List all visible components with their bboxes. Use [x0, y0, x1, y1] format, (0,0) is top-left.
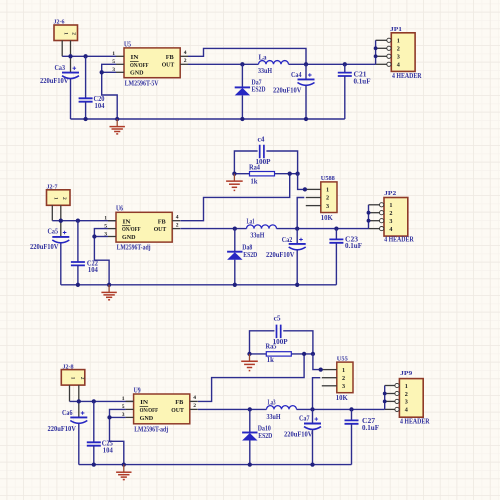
wire J2-7 pin1: [51, 205, 53, 220]
junction: [76, 283, 80, 287]
pin 2: [376, 47, 387, 49]
junction: [295, 172, 299, 176]
regulator IC U6: [116, 212, 172, 242]
svg-text:ON/OFF: ON/OFF: [122, 226, 141, 233]
capacitor C23: [329, 229, 343, 285]
pin 4 (FB): [190, 400, 198, 402]
junction: [77, 399, 81, 403]
wire ON/OFF to GND net: [94, 229, 109, 285]
header JP9: [399, 379, 423, 418]
wire ON/OFF to GND net: [102, 64, 118, 119]
svg-text:33uH: 33uH: [250, 233, 265, 240]
capacitor Ca7: [304, 409, 321, 464]
diode Da10: [242, 409, 257, 464]
ground: [226, 174, 243, 191]
svg-text:220uF10V: 220uF10V: [273, 88, 302, 95]
svg-text:ES2D: ES2D: [243, 252, 257, 259]
junction: [304, 117, 308, 121]
junction: [248, 407, 252, 411]
wire header bus: [368, 205, 370, 229]
regulator IC U5: [124, 48, 180, 78]
svg-text:4 HEADER: 4 HEADER: [384, 237, 414, 244]
svg-text:1k: 1k: [267, 357, 274, 364]
capacitor c4 (100P): [234, 145, 297, 174]
svg-text:220uF10V: 220uF10V: [30, 244, 59, 251]
capacitor Ca6: [70, 411, 87, 464]
pin 1: [376, 39, 387, 41]
wire J2-6 pin2: [70, 41, 72, 73]
pin 2 (OUT): [172, 228, 180, 230]
svg-text:220uF10V: 220uF10V: [284, 431, 313, 438]
svg-text:4: 4: [184, 50, 187, 56]
svg-text:2: 2: [342, 375, 345, 382]
junction: [232, 172, 236, 176]
pin 3: [369, 220, 380, 222]
junction: [367, 211, 371, 215]
svg-text:1: 1: [342, 367, 345, 374]
junction: [233, 226, 237, 230]
capacitor C21: [338, 64, 352, 119]
header JP1: [391, 33, 415, 72]
svg-text:1: 1: [62, 32, 68, 35]
capacitor C22: [71, 221, 85, 285]
wire pot pin1 from RC node: [313, 354, 322, 370]
ground: [110, 119, 125, 134]
connector J2-8: [61, 370, 85, 386]
capacitor C20: [79, 56, 93, 119]
svg-text:LM2596T-adj: LM2596T-adj: [134, 426, 168, 433]
wire pot pin2 from OUT node: [313, 378, 321, 410]
resistor Ra5: [266, 352, 291, 356]
svg-text:FB: FB: [166, 54, 175, 61]
svg-text:OUT: OUT: [162, 62, 175, 69]
svg-text:JP2: JP2: [384, 190, 397, 197]
junction: [343, 62, 347, 66]
wire IN net: [62, 55, 116, 57]
svg-text:1: 1: [112, 51, 115, 57]
pin 4 (FB): [172, 220, 180, 222]
wire OUT net: [180, 228, 246, 230]
svg-text:OUT: OUT: [171, 407, 184, 414]
svg-text:GND: GND: [140, 415, 154, 422]
svg-text:GND: GND: [130, 70, 144, 77]
pin 3 (GND): [126, 416, 134, 418]
pin 5 (ON/OFF): [108, 228, 116, 230]
resistor Ra4: [250, 172, 275, 176]
pin 3: [376, 55, 387, 57]
capacitor Ca4: [298, 64, 315, 119]
svg-text:1k: 1k: [251, 178, 258, 185]
svg-text:1: 1: [53, 197, 59, 200]
wire J2-7 pin2: [60, 205, 62, 237]
svg-text:2: 2: [184, 58, 187, 64]
svg-text:4 HEADER: 4 HEADER: [392, 73, 422, 80]
svg-text:1: 1: [326, 187, 329, 194]
junction: [68, 54, 72, 58]
svg-text:La1: La1: [247, 218, 255, 225]
svg-text:220uF10V: 220uF10V: [40, 78, 69, 85]
svg-text:La: La: [259, 54, 268, 61]
svg-text:Da7: Da7: [252, 79, 263, 86]
pin 4: [376, 63, 387, 65]
svg-text:FB: FB: [158, 218, 167, 225]
pin 1 (IN): [108, 220, 116, 222]
junction: [247, 352, 251, 356]
svg-text:220uF10V: 220uF10V: [266, 252, 295, 259]
regulator IC U9: [134, 394, 190, 424]
junction: [310, 407, 314, 411]
wire pot pin2 from OUT node: [297, 198, 304, 229]
wire FB net: [188, 48, 306, 64]
wire ground rail: [79, 464, 352, 466]
ground: [101, 285, 116, 300]
svg-text:2: 2: [61, 197, 67, 200]
junction: [240, 62, 244, 66]
wire OUT net after inductor: [289, 63, 376, 65]
potentiometer U588: [321, 182, 337, 213]
junction: [240, 117, 244, 121]
svg-text:104: 104: [103, 447, 114, 454]
svg-text:0.1uF: 0.1uF: [362, 425, 379, 432]
wire J2-8 pin2: [78, 385, 80, 417]
inductor La3: [267, 406, 297, 410]
svg-text:1: 1: [104, 216, 107, 222]
svg-text:U55: U55: [337, 355, 349, 362]
svg-text:33uH: 33uH: [267, 414, 282, 421]
junction: [233, 283, 237, 287]
svg-text:2: 2: [326, 195, 329, 202]
diode Da8: [227, 229, 242, 285]
svg-text:Ca2: Ca2: [282, 237, 293, 244]
junction: [248, 462, 252, 466]
svg-text:FB: FB: [175, 399, 184, 406]
wire OUT net: [198, 408, 267, 410]
svg-text:2: 2: [176, 222, 179, 228]
svg-text:Ca4: Ca4: [291, 72, 302, 79]
svg-text:4: 4: [389, 226, 392, 233]
svg-text:c4: c4: [258, 136, 266, 143]
junction: [310, 462, 314, 466]
junction: [59, 219, 63, 223]
potentiometer U55: [337, 362, 353, 393]
pin 4: [369, 228, 380, 230]
svg-text:Da10: Da10: [258, 425, 272, 432]
svg-text:JP1: JP1: [390, 26, 402, 33]
svg-text:Ca6: Ca6: [62, 410, 73, 417]
svg-text:2: 2: [397, 46, 400, 53]
svg-text:4: 4: [176, 215, 179, 221]
pin 5 (ON/OFF): [116, 63, 124, 65]
svg-text:JP9: JP9: [400, 370, 413, 377]
wire RC row: [234, 173, 249, 175]
pin 2: [385, 393, 395, 395]
junction: [374, 54, 378, 58]
svg-text:Ca3: Ca3: [55, 65, 66, 72]
svg-text:3: 3: [389, 218, 392, 225]
svg-text:Ca5: Ca5: [48, 229, 59, 236]
svg-text:LM2596T-adj: LM2596T-adj: [117, 245, 151, 252]
svg-text:104: 104: [95, 103, 106, 110]
svg-text:1: 1: [405, 383, 408, 390]
svg-text:Ra5: Ra5: [266, 343, 278, 350]
wire GND pin: [94, 236, 108, 238]
svg-text:2: 2: [71, 32, 77, 35]
svg-text:4: 4: [397, 62, 400, 69]
junction: [100, 70, 104, 74]
junction: [107, 415, 111, 419]
svg-text:4: 4: [405, 407, 408, 414]
svg-text:3: 3: [326, 203, 329, 210]
svg-text:3: 3: [397, 54, 400, 61]
junction: [383, 392, 387, 396]
pin 1 (IN): [126, 400, 134, 402]
wire OUT net after inductor: [277, 228, 369, 230]
junction: [92, 399, 96, 403]
pin 1: [322, 369, 337, 371]
svg-text:0.1uF: 0.1uF: [345, 243, 362, 250]
junction: [83, 54, 87, 58]
svg-text:3: 3: [342, 383, 345, 390]
junction: [374, 46, 378, 50]
capacitor Ca5: [52, 231, 69, 285]
capacitor Ca3: [62, 66, 79, 119]
svg-text:2: 2: [405, 391, 408, 398]
wire FB net: [198, 354, 304, 402]
svg-text:2: 2: [79, 377, 85, 380]
junction: [383, 400, 387, 404]
svg-text:U9: U9: [134, 387, 142, 394]
wire header bus: [375, 40, 377, 64]
pin 1 (IN): [116, 55, 124, 57]
svg-text:4 HEADER: 4 HEADER: [400, 418, 430, 425]
svg-text:ES2D: ES2D: [252, 87, 266, 94]
svg-text:10K: 10K: [336, 395, 349, 402]
capacitor Ca2: [289, 229, 306, 285]
junction: [367, 219, 371, 223]
svg-text:2: 2: [193, 403, 196, 409]
junction: [349, 407, 353, 411]
pin 3 (GND): [116, 71, 124, 73]
pin 2 (OUT): [190, 408, 198, 410]
wire GND pin: [110, 416, 126, 418]
pin 1: [306, 188, 321, 190]
pin 5 (ON/OFF): [126, 408, 134, 410]
svg-text:U6: U6: [116, 206, 124, 213]
junction: [83, 117, 87, 121]
capacitor c5 (100P): [250, 325, 313, 354]
svg-text:4: 4: [193, 395, 196, 401]
wire ground rail: [61, 284, 337, 286]
svg-text:LM2596T-5V: LM2596T-5V: [125, 80, 159, 87]
svg-text:Ra4: Ra4: [249, 164, 261, 171]
svg-text:1: 1: [389, 202, 392, 209]
svg-text:ES2D: ES2D: [258, 433, 272, 440]
junction: [303, 187, 307, 191]
svg-text:La3: La3: [268, 399, 276, 406]
wire header bus: [384, 386, 386, 410]
wire J2-6 pin1: [61, 41, 63, 57]
pin 1: [369, 204, 380, 206]
svg-text:Ca7: Ca7: [299, 416, 310, 423]
junction: [107, 283, 111, 287]
wire IN net: [70, 400, 134, 402]
junction: [76, 219, 80, 223]
svg-text:0.1uF: 0.1uF: [354, 78, 371, 85]
svg-text:U588: U588: [321, 175, 336, 182]
wire OUT net after inductor: [297, 408, 385, 410]
pin 4 (FB): [180, 55, 188, 57]
svg-text:IN: IN: [123, 218, 131, 225]
junction: [295, 226, 299, 230]
svg-text:220uF10V: 220uF10V: [48, 426, 77, 433]
svg-text:ON/OFF: ON/OFF: [140, 407, 159, 414]
junction: [311, 352, 315, 356]
svg-text:U5: U5: [124, 41, 132, 48]
pin 4: [385, 408, 395, 410]
junction: [302, 352, 306, 356]
svg-text:10K: 10K: [321, 215, 334, 222]
wire IN net: [52, 220, 116, 222]
connector J2-7: [47, 190, 71, 206]
ground: [116, 465, 131, 480]
svg-text:ON/OFF: ON/OFF: [130, 62, 149, 69]
junction: [334, 226, 338, 230]
pin 1: [385, 385, 395, 387]
pin 3: [322, 385, 337, 387]
pin 2: [369, 212, 380, 214]
wire J2-8 pin1: [69, 385, 71, 401]
pin 3 (GND): [108, 236, 116, 238]
junction: [92, 462, 96, 466]
pin 2 (OUT): [180, 63, 188, 65]
svg-text:3: 3: [405, 399, 408, 406]
capacitor C27: [345, 409, 359, 464]
junction: [115, 117, 119, 121]
junction: [295, 283, 299, 287]
junction: [319, 367, 323, 371]
capacitor C25: [87, 401, 101, 464]
svg-text:OUT: OUT: [154, 226, 167, 233]
inductor La1: [247, 225, 277, 229]
wire pot pin1 from RC node: [298, 174, 306, 190]
pin 3: [385, 400, 395, 402]
junction: [288, 172, 292, 176]
svg-text:GND: GND: [122, 234, 136, 241]
junction: [122, 462, 126, 466]
wire OUT net: [188, 63, 259, 65]
svg-text:IN: IN: [140, 399, 148, 406]
svg-text:33uH: 33uH: [258, 68, 273, 75]
connector J2-6: [54, 25, 78, 41]
svg-text:Da8: Da8: [242, 244, 253, 251]
header JP2: [384, 198, 408, 237]
inductor La: [259, 61, 289, 65]
wire ON/OFF to GND net: [110, 409, 126, 464]
pin 2: [306, 197, 321, 199]
ground: [241, 354, 258, 371]
pin 3: [306, 205, 321, 207]
svg-text:IN: IN: [131, 54, 139, 61]
wire FB net: [180, 174, 289, 221]
wire GND pin: [102, 71, 116, 73]
svg-text:2: 2: [389, 210, 392, 217]
junction: [92, 234, 96, 238]
svg-text:1: 1: [397, 38, 400, 45]
wire ground rail: [71, 118, 345, 120]
svg-text:1: 1: [70, 377, 76, 380]
junction: [304, 62, 308, 66]
svg-text:1: 1: [122, 396, 125, 402]
wire RC row: [250, 353, 267, 355]
diode Da7: [235, 64, 250, 119]
svg-text:c5: c5: [274, 316, 282, 323]
pin 2: [322, 377, 337, 379]
svg-text:104: 104: [88, 267, 99, 274]
